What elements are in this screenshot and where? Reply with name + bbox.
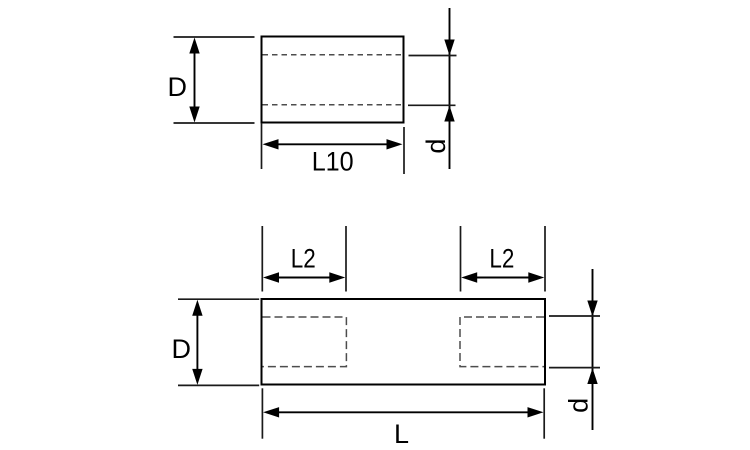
dimension line D with arrows (bottom view) — [192, 300, 202, 385]
dimension line L2 left with arrows (bottom view) — [263, 272, 345, 282]
dimension line L10 with arrows (top view) — [263, 139, 403, 149]
bottom view right tapped hole (dashed box) — [460, 317, 544, 367]
label d rotated (top view) — [421, 139, 451, 154]
dimension line d vertical with arrows (top view right) — [444, 8, 454, 169]
svg-text:L10: L10 — [312, 147, 354, 177]
extension line top for dimension d (bottom view) — [549, 315, 600, 317]
label L2 right (bottom view) — [489, 244, 514, 274]
bottom view body outline — [262, 299, 546, 385]
extension line bottom for dimension D (bottom view) — [178, 384, 259, 386]
svg-text:L2: L2 — [291, 244, 316, 274]
label L (bottom view) — [394, 419, 409, 449]
top view hidden hole line (upper dashed) — [263, 54, 404, 56]
extension line right for dimension L10 (top view) — [403, 127, 405, 174]
label L2 left (bottom view) — [291, 244, 316, 274]
dimension line D with arrows (top view) — [189, 38, 199, 123]
extension line bottom for dimension d (bottom view) — [549, 367, 600, 369]
label D (top view) — [168, 72, 188, 102]
svg-text:D: D — [168, 72, 188, 102]
top view body outline — [262, 37, 404, 123]
bottom view left tapped hole (dashed box) — [263, 317, 347, 367]
extension line left for dimension L (bottom view) — [261, 388, 263, 438]
extension line right for dimension L (bottom view) — [543, 388, 545, 438]
svg-text:L: L — [394, 419, 409, 449]
extension line right for dimension L2 left (bottom view) — [345, 226, 347, 292]
extension line bottom for dimension d (top view) — [408, 104, 456, 106]
extension line left for dimension L2 right (bottom view) — [460, 226, 462, 292]
extension line left for dimension L2 left (bottom view) — [261, 226, 263, 292]
dimension line L2 right with arrows (bottom view) — [461, 272, 544, 282]
dimension line L with arrows (bottom view) — [263, 407, 543, 417]
label L10 (top view) — [312, 147, 354, 177]
extension line left for dimension L10 (top view) — [261, 123, 263, 169]
extension line bottom for dimension D (top view) — [174, 122, 255, 124]
extension line top for dimension D (bottom view) — [178, 298, 259, 300]
svg-text:D: D — [172, 334, 192, 364]
extension line top for dimension d (top view) — [409, 55, 457, 57]
dimension line d vertical with arrows (bottom view right) — [587, 269, 597, 430]
label d rotated (bottom view) — [564, 398, 594, 413]
label D (bottom view) — [172, 334, 192, 364]
top view hidden hole line (lower dashed) — [263, 104, 404, 106]
svg-text:L2: L2 — [489, 244, 514, 274]
extension line top for dimension D (top view) — [174, 36, 255, 38]
svg-text:d: d — [421, 139, 451, 154]
extension line right for dimension L2 right (bottom view) — [544, 226, 546, 292]
svg-text:d: d — [564, 398, 594, 413]
